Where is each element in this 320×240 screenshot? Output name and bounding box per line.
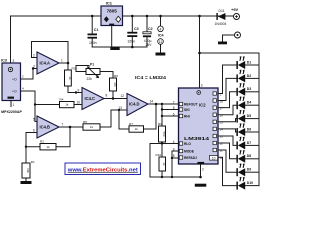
- svg-text:13: 13: [220, 134, 224, 138]
- svg-text:IC4 = LM324: IC4 = LM324: [135, 75, 167, 80]
- svg-text:1k: 1k: [65, 103, 69, 107]
- svg-text:IC4: IC4: [158, 33, 165, 37]
- svg-text:MPX2200AP: MPX2200AP: [1, 110, 22, 114]
- svg-text:9: 9: [173, 147, 175, 151]
- svg-text:5: 5: [33, 118, 35, 122]
- svg-text:RHI: RHI: [184, 114, 190, 118]
- svg-text:+9V: +9V: [231, 7, 239, 12]
- svg-text:IC3: IC3: [1, 59, 7, 63]
- svg-text:17: 17: [220, 106, 224, 110]
- svg-text:www.ExtremeCircuits.net: www.ExtremeCircuits.net: [67, 167, 138, 173]
- svg-text:R4: R4: [60, 98, 64, 102]
- svg-text:1: 1: [61, 59, 63, 63]
- svg-text:18: 18: [220, 99, 224, 103]
- svg-text:8: 8: [173, 154, 175, 158]
- svg-text:25V: 25V: [146, 43, 153, 47]
- svg-text:6: 6: [173, 112, 175, 116]
- svg-text:REFADJ: REFADJ: [184, 156, 197, 160]
- svg-text:+O: +O: [12, 78, 17, 82]
- svg-text:2: 2: [33, 54, 35, 58]
- svg-text:8: 8: [106, 94, 108, 98]
- svg-text:13: 13: [119, 106, 123, 110]
- svg-text:11: 11: [220, 148, 223, 152]
- svg-text:R9: R9: [158, 122, 162, 126]
- svg-text:7805: 7805: [107, 9, 118, 14]
- svg-text:11: 11: [159, 40, 163, 44]
- svg-text:D6: D6: [247, 127, 251, 131]
- svg-text:14: 14: [150, 100, 154, 104]
- svg-text:R5: R5: [83, 120, 87, 124]
- svg-text:IC4.C: IC4.C: [85, 96, 96, 101]
- svg-text:1k: 1k: [135, 127, 139, 131]
- svg-text:7: 7: [62, 123, 64, 127]
- svg-text:560: 560: [162, 132, 166, 137]
- svg-text:4: 4: [160, 27, 162, 31]
- svg-text:IC1: IC1: [106, 0, 113, 5]
- svg-text:P1: P1: [90, 62, 94, 66]
- svg-text:3: 3: [33, 65, 35, 69]
- svg-text:12: 12: [220, 141, 224, 145]
- svg-text:3: 3: [201, 84, 203, 88]
- svg-text:R6: R6: [114, 74, 118, 78]
- svg-text:D10: D10: [247, 181, 253, 185]
- svg-text:MODE: MODE: [184, 149, 195, 153]
- svg-text:R1: R1: [31, 160, 35, 164]
- svg-text:IC2: IC2: [199, 103, 206, 108]
- svg-text:D4: D4: [247, 101, 251, 105]
- svg-text:C2: C2: [148, 27, 153, 31]
- svg-text:D1: D1: [247, 60, 251, 64]
- svg-text:R7: R7: [129, 122, 133, 126]
- svg-text:10k: 10k: [26, 168, 30, 173]
- svg-text:1k: 1k: [90, 125, 94, 129]
- svg-text:D3: D3: [247, 87, 251, 91]
- svg-text:2: 2: [202, 168, 204, 172]
- svg-text:D2: D2: [247, 74, 251, 78]
- svg-text:RLO: RLO: [184, 142, 191, 146]
- svg-text:C1: C1: [94, 28, 99, 32]
- svg-text:D8: D8: [247, 154, 251, 158]
- svg-text:4: 4: [173, 140, 175, 144]
- svg-text:D9: D9: [247, 168, 251, 172]
- svg-text:R10: R10: [156, 153, 162, 157]
- svg-text:1k: 1k: [46, 145, 50, 149]
- svg-text:1: 1: [13, 103, 15, 107]
- svg-text:47k: 47k: [113, 82, 117, 87]
- svg-text:SIG: SIG: [184, 108, 190, 112]
- svg-text:C3: C3: [134, 27, 139, 31]
- svg-text:10: 10: [77, 101, 81, 105]
- svg-text:LM3914: LM3914: [184, 136, 210, 141]
- svg-text:100n: 100n: [89, 41, 97, 45]
- svg-text:+O: +O: [12, 90, 17, 94]
- svg-text:D11: D11: [219, 9, 225, 13]
- svg-text:IC4.A: IC4.A: [40, 61, 51, 66]
- svg-text:D5: D5: [247, 114, 251, 118]
- svg-text:16: 16: [220, 113, 224, 117]
- svg-text:320n: 320n: [128, 40, 136, 44]
- svg-text:22k: 22k: [87, 77, 93, 81]
- svg-text:14: 14: [220, 127, 224, 131]
- svg-text:IC4.B: IC4.B: [40, 125, 51, 130]
- svg-text:3: 3: [13, 59, 15, 63]
- svg-text:7: 7: [173, 100, 175, 104]
- svg-text:D7: D7: [247, 141, 251, 145]
- svg-text:IC4.D: IC4.D: [129, 102, 140, 107]
- svg-text:10: 10: [212, 156, 216, 160]
- svg-text:R3: R3: [72, 67, 76, 71]
- svg-text:1N4004: 1N4004: [215, 22, 227, 26]
- svg-text:R2: R2: [40, 140, 44, 144]
- svg-text:REFOUT: REFOUT: [184, 102, 198, 106]
- svg-text:5: 5: [173, 106, 175, 110]
- svg-text:9: 9: [78, 89, 80, 93]
- svg-text:12: 12: [121, 94, 125, 98]
- svg-text:15: 15: [220, 120, 224, 124]
- svg-text:6: 6: [33, 129, 35, 133]
- svg-text:10: 10: [220, 156, 224, 160]
